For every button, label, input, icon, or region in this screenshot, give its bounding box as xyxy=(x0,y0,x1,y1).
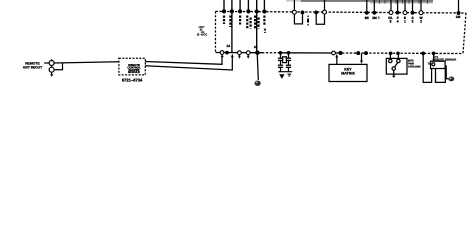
svg-text:ANT IN/OUT: ANT IN/OUT xyxy=(23,65,43,69)
svg-text:6721–6734: 6721–6734 xyxy=(122,77,143,82)
svg-text:B–ACC: B–ACC xyxy=(197,32,208,36)
svg-text:2M: 2M xyxy=(372,16,377,20)
svg-text:UP/DOWN: UP/DOWN xyxy=(408,65,421,68)
svg-text:MODULE: MODULE xyxy=(128,71,140,74)
svg-text:14: 14 xyxy=(226,44,230,48)
svg-text:8: 8 xyxy=(390,20,392,24)
svg-text:REMOTE SENSOR: REMOTE SENSOR xyxy=(433,58,457,61)
svg-text:4: 4 xyxy=(397,20,399,24)
svg-text:1: 1 xyxy=(404,20,406,24)
svg-text:2: 2 xyxy=(420,20,422,24)
svg-text:1M: 1M xyxy=(456,15,461,19)
svg-text:MATRIX: MATRIX xyxy=(341,72,355,76)
svg-text:3: 3 xyxy=(412,20,414,24)
